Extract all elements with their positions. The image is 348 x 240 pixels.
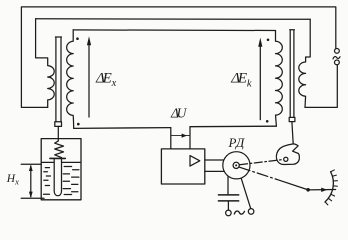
right secondary winding (rect right edge) bbox=[276, 31, 283, 127]
wire: amplifier to motor upper bbox=[205, 159, 224, 161]
transformer T2 core (movable plunger) bbox=[290, 30, 295, 118]
AC source terminal upper (right) bbox=[335, 49, 340, 54]
motor shaft circle bbox=[233, 162, 239, 168]
wire: capacitor to terminal bbox=[227, 202, 229, 211]
loop bottom edge left bbox=[74, 127, 171, 130]
rod: T2 core to cam bbox=[292, 122, 293, 144]
scale ticks bbox=[325, 170, 337, 205]
polarity dot right top bbox=[267, 39, 270, 42]
motor RD body bbox=[223, 152, 250, 179]
loop bottom edge right bbox=[190, 125, 276, 128]
rod: T1 core to spring bbox=[57, 126, 59, 140]
svg-text:k: k bbox=[247, 78, 252, 89]
spring bbox=[55, 141, 64, 158]
AC terminal bottom right bbox=[248, 209, 254, 215]
dimension line upper bbox=[21, 163, 41, 165]
loop top edge bbox=[73, 29, 275, 32]
displacer tube bbox=[54, 159, 61, 196]
svg-text:ΔU: ΔU bbox=[170, 106, 188, 121]
polarity dot left top bbox=[76, 37, 79, 40]
AC source terminal lower (right) bbox=[335, 60, 340, 65]
svg-text:x: x bbox=[111, 78, 117, 89]
capacitor C plates bbox=[218, 195, 238, 201]
AC tilde bottom bbox=[234, 211, 244, 214]
arrowhead dEx bbox=[87, 36, 91, 45]
arrowhead dEk bbox=[258, 38, 262, 47]
transformer T1 primary winding bbox=[36, 19, 55, 108]
linkage: motor shaft to pointer (dash-dot) bbox=[239, 167, 276, 179]
arrowhead dU bbox=[182, 134, 187, 138]
transformer T2 primary winding bbox=[299, 19, 310, 107]
svg-text:ΔE: ΔE bbox=[230, 71, 247, 87]
AC terminal bottom left bbox=[226, 210, 232, 216]
liquid level line bbox=[42, 161, 80, 163]
dU gap drop wire right bbox=[189, 127, 191, 149]
amplifier triangle bbox=[190, 156, 200, 167]
hanger bar bbox=[50, 157, 65, 159]
vessel Hx bbox=[41, 139, 81, 200]
pointer arrow line bbox=[308, 189, 336, 191]
wire: amplifier to motor lower bbox=[205, 170, 224, 172]
dU direction arrow bbox=[171, 135, 190, 137]
polarity dot left bottom bbox=[77, 123, 80, 126]
wire: T2 primary to AC terminals bbox=[305, 65, 337, 108]
cam profile bbox=[276, 144, 299, 165]
svg-text:РД: РД bbox=[228, 135, 246, 150]
EMF arrow dEx bbox=[88, 44, 90, 117]
wire: inner top bus bbox=[36, 18, 311, 21]
EMF arrow dEk bbox=[259, 46, 261, 120]
pointer arrowhead bbox=[321, 188, 327, 192]
polarity dot right bottom bbox=[266, 120, 269, 123]
wire: outer excitation loop (top and left) bbox=[21, 7, 335, 107]
wire: motor to bottom right terminal bbox=[241, 178, 251, 208]
dU gap drop wire left bbox=[170, 128, 172, 149]
motor shaft center dot bbox=[235, 164, 237, 166]
dimension arrowhead top bbox=[29, 165, 33, 172]
scale arc bbox=[325, 172, 333, 202]
wire: motor to capacitor bbox=[227, 176, 229, 194]
dimension line lower bbox=[21, 197, 44, 199]
transformer T1 core (movable plunger) bbox=[55, 37, 61, 122]
svg-text:ΔE: ΔE bbox=[95, 71, 112, 87]
amplifier U1 box bbox=[161, 149, 204, 184]
linkage: motor shaft to cam (dash-dot) bbox=[240, 160, 284, 165]
pointer pivot dot bbox=[306, 188, 310, 192]
left secondary winding (rect left edge) bbox=[67, 30, 74, 128]
dimension arrow Hx bbox=[30, 166, 32, 197]
cam pivot hole bbox=[284, 157, 288, 161]
dimension arrowhead bottom bbox=[29, 192, 33, 199]
liquid dashes bbox=[44, 167, 79, 195]
AC source tilde (right) bbox=[333, 57, 340, 59]
